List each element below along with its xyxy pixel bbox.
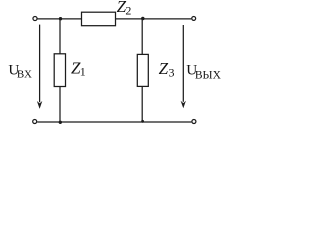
node C: bottom junction under Z1 [59, 121, 62, 124]
input terminal bottom-left [33, 120, 37, 124]
input terminal top-left [33, 16, 37, 20]
arrow line for Uvyx [182, 25, 184, 102]
wire: Z1 down to bottom rail [59, 87, 61, 123]
svg-text:1: 1 [80, 65, 86, 79]
arrowhead Uvx [37, 101, 42, 109]
wire: node B down to Z3 [141, 19, 143, 54]
wire: Z3 down to bottom rail [141, 86, 143, 122]
wire: node A down to Z1 [59, 19, 61, 54]
node B: top junction to Z3 [141, 17, 145, 21]
arrow line for Uvx [39, 25, 41, 103]
svg-text:2: 2 [125, 4, 131, 18]
wire: bottom rail [37, 121, 191, 123]
output terminal top-right [192, 16, 196, 20]
resistor Z2 body [82, 12, 116, 26]
resistor Z3 body [137, 54, 148, 86]
arrowhead Uvyx [181, 101, 186, 108]
output terminal bottom-right [192, 120, 196, 124]
wire: top-left terminal to Z2 [38, 18, 82, 20]
svg-text:3: 3 [169, 66, 175, 80]
node A: top junction to Z1 [59, 17, 62, 20]
wire: Z2 to top-right terminal [116, 18, 192, 20]
resistor Z1 body [54, 54, 65, 87]
svg-text:ВЫХ: ВЫХ [195, 69, 222, 81]
svg-text:Z: Z [159, 59, 169, 78]
svg-text:ВХ: ВХ [17, 69, 32, 81]
node D: bottom junction under Z3 [141, 120, 144, 123]
